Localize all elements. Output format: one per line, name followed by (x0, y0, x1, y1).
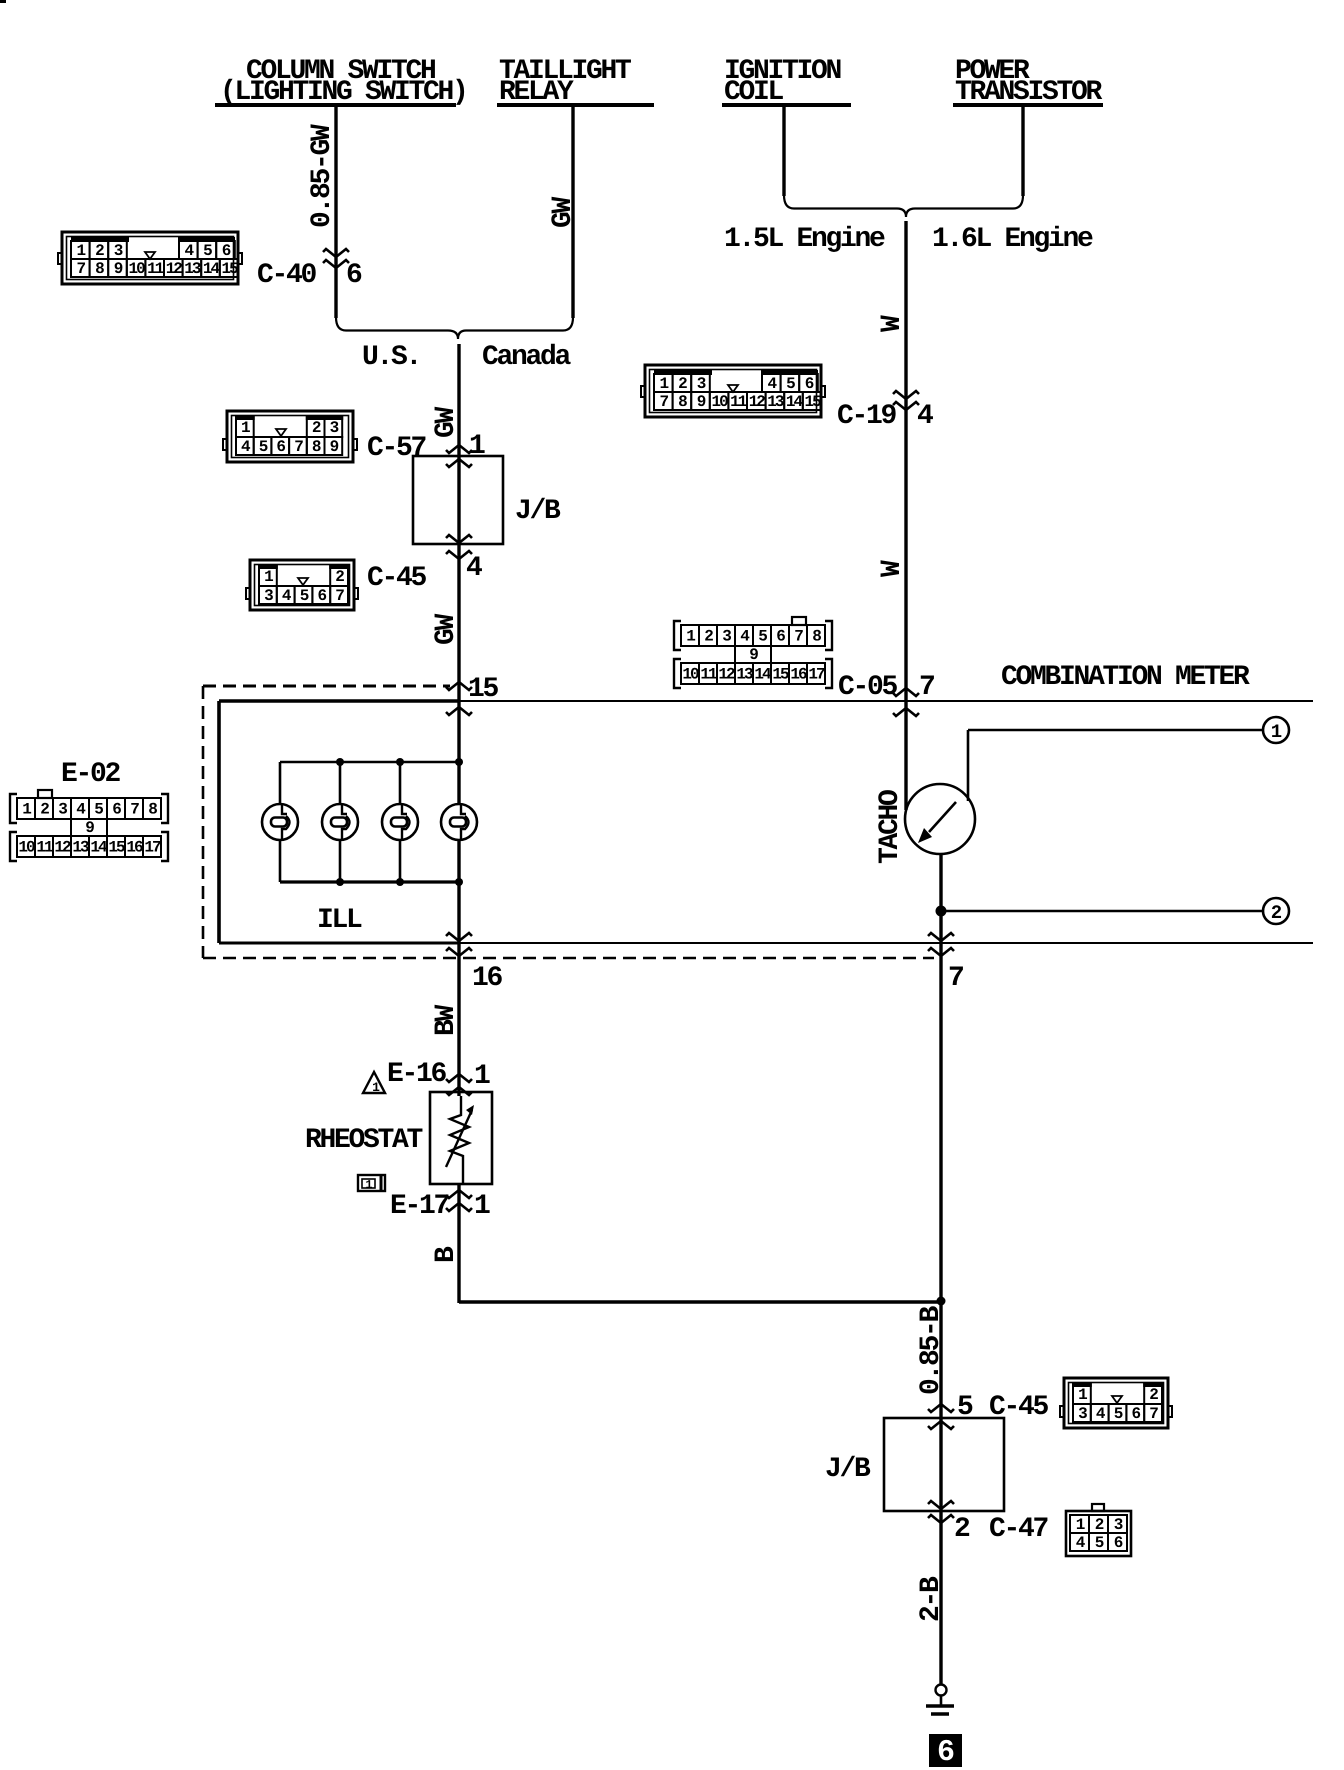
junction block J/B (upper) (413, 456, 503, 544)
svg-text:B: B (431, 1246, 462, 1263)
connector C-45 pin diagram (246, 560, 358, 610)
svg-text:13: 13 (72, 839, 89, 857)
combination meter inner solid box (217, 701, 221, 943)
svg-text:12: 12 (749, 393, 766, 411)
svg-text:10: 10 (682, 666, 699, 684)
svg-text:17: 17 (144, 839, 161, 857)
connector E-17 arrows pin 1 (446, 1190, 472, 1198)
svg-text:GW: GW (548, 196, 579, 228)
connector E-02 pin diagram (10, 790, 168, 861)
svg-text:14: 14 (786, 393, 804, 411)
svg-text:13: 13 (184, 260, 201, 278)
svg-text:14: 14 (90, 839, 108, 857)
junction with 0.85-B wire (937, 1297, 946, 1306)
svg-text:4: 4 (466, 553, 482, 584)
connector C-40 arrow pin 6 (323, 249, 349, 257)
svg-text:0.85-GW: 0.85-GW (307, 124, 338, 228)
connector C-40 pin diagram (58, 232, 242, 284)
svg-text:E-02: E-02 (61, 759, 121, 790)
wire lamp2 top stub (339, 762, 342, 804)
svg-text:1.6L Engine: 1.6L Engine (932, 224, 1093, 255)
rheostat (430, 1092, 492, 1184)
svg-text:15: 15 (804, 393, 821, 411)
svg-text:2-B: 2-B (916, 1576, 947, 1622)
svg-text:7: 7 (948, 963, 963, 994)
wire lamp1 bottom stub (279, 840, 282, 882)
svg-text:2: 2 (1271, 902, 1282, 924)
svg-text:1: 1 (474, 1061, 490, 1092)
connector C-47 arrows pin 2 (928, 1501, 954, 1509)
connector C-05 pin diagram (674, 617, 832, 688)
connector C-45 arrows pin 5 (928, 1404, 954, 1412)
lamp ILL bulb 1 (262, 804, 298, 840)
junction top bus / lamp2 (336, 758, 344, 766)
junction top bus / main wire (455, 758, 463, 766)
svg-text:6: 6 (937, 1736, 954, 1770)
combination meter dashed enclosure (203, 685, 450, 688)
wire lamp3 top stub (399, 762, 402, 804)
svg-text:E-16: E-16 (387, 1059, 447, 1090)
svg-text:W: W (877, 315, 908, 332)
connector E-16 arrows pin 1 (446, 1074, 472, 1082)
svg-text:C-40: C-40 (257, 260, 317, 291)
junction bottom bus / lamp3 (396, 878, 404, 886)
svg-text:6: 6 (346, 260, 362, 291)
svg-text:TACHO: TACHO (875, 790, 906, 864)
svg-text:C-05: C-05 (838, 672, 898, 703)
svg-text:10: 10 (711, 393, 728, 411)
warning triangle note 1 (363, 1072, 385, 1093)
wire 0.85-GW from column switch (334, 106, 337, 318)
connector C-45 lower pin diagram (1060, 1378, 1172, 1428)
svg-text:RHEOSTAT: RHEOSTAT (305, 1125, 423, 1156)
svg-text:10: 10 (18, 839, 35, 857)
connector C-47 pin diagram (1066, 1504, 1131, 1556)
junction bottom bus / main wire (455, 878, 463, 886)
brace joining U.S. / Canada wires (336, 317, 573, 339)
wire B horizontal run to right (459, 1300, 941, 1303)
connector C-45 arrow pin 4 (446, 535, 472, 543)
meter pin 16 exit arrows (446, 933, 472, 941)
svg-text:GW: GW (431, 406, 462, 438)
wire tacho terminal 1 vertical (967, 730, 970, 801)
svg-text:11: 11 (730, 393, 747, 411)
wire BW through meter bottom to rheostat (457, 840, 460, 1096)
svg-text:11: 11 (147, 260, 164, 278)
junction top bus / lamp3 (396, 758, 404, 766)
gauge TACHO (905, 784, 975, 854)
svg-text:ILL: ILL (317, 905, 362, 936)
svg-text:C-45: C-45 (367, 563, 427, 594)
connector C-19 pin diagram (641, 365, 825, 417)
svg-text:C-57: C-57 (367, 433, 426, 464)
junction bottom bus / lamp2 (336, 878, 344, 886)
node terminal circle 1 (1263, 717, 1289, 743)
wire lamp2 bottom stub (339, 840, 342, 882)
wire from power transistor (1021, 106, 1024, 196)
svg-text:12: 12 (718, 666, 735, 684)
wire W down to tachometer (904, 221, 907, 810)
lamp ILL bulb 2 (322, 804, 358, 840)
svg-text:W: W (877, 560, 908, 577)
wire GW from taillight relay (571, 106, 574, 318)
svg-text:14: 14 (203, 260, 221, 278)
svg-text:12: 12 (166, 260, 183, 278)
connector icon E-17 single pin (358, 1175, 385, 1191)
wire to external terminal 2 (941, 910, 1263, 913)
svg-text:15: 15 (221, 260, 238, 278)
page reference 6 (929, 1734, 962, 1767)
svg-text:C-19: C-19 (837, 401, 897, 432)
svg-text:1: 1 (474, 1191, 490, 1222)
svg-text:1: 1 (1271, 721, 1282, 743)
wire B from tacho down through meter bottom to ground (939, 854, 942, 1684)
svg-text:15: 15 (772, 666, 789, 684)
svg-text:16: 16 (472, 963, 503, 994)
svg-text:7: 7 (919, 672, 934, 703)
lamp ILL bulb 3 (382, 804, 418, 840)
svg-text:J/B: J/B (515, 496, 561, 527)
svg-text:11: 11 (700, 666, 717, 684)
svg-text:13: 13 (736, 666, 753, 684)
meter pin 7 exit arrows (bottom) (928, 933, 954, 941)
wire GW main run down to lamp group (457, 344, 460, 804)
node terminal circle 2 (1263, 898, 1289, 924)
svg-text:C-47: C-47 (989, 1514, 1048, 1545)
junction tacho/terminal 2 (936, 906, 947, 917)
svg-text:12: 12 (54, 839, 71, 857)
svg-text:16: 16 (790, 666, 807, 684)
svg-text:11: 11 (36, 839, 53, 857)
junction block J/B (lower) (884, 1418, 1004, 1511)
wire to external terminal 1 (968, 729, 1263, 732)
svg-text:BW: BW (431, 1004, 462, 1036)
wire lamp bottom bus (280, 880, 459, 883)
svg-text:10: 10 (128, 260, 145, 278)
svg-text:13: 13 (767, 393, 784, 411)
svg-text:14: 14 (754, 666, 772, 684)
svg-text:1: 1 (469, 431, 485, 462)
connector C-57 pin diagram (223, 411, 357, 462)
lamp ILL bulb 4 (441, 804, 477, 840)
svg-text:J/B: J/B (825, 1454, 871, 1485)
wire from ignition coil (782, 106, 785, 196)
svg-text:15: 15 (108, 839, 125, 857)
connector C-19 arrow pin 4 (893, 391, 919, 399)
svg-text:U.S.: U.S. (362, 342, 420, 373)
svg-text:2: 2 (954, 1514, 970, 1545)
ground symbol (936, 1685, 947, 1696)
connector C-57 arrow pin 1 (446, 445, 472, 453)
svg-text:17: 17 (808, 666, 825, 684)
brace joining 1.5L / 1.6L engine wires (784, 195, 1023, 217)
svg-text:E-17: E-17 (390, 1191, 449, 1222)
svg-text:4: 4 (917, 401, 933, 432)
svg-text:0.85-B: 0.85-B (916, 1305, 947, 1395)
combination meter pin 7 arrows (top) (893, 688, 919, 696)
svg-text:GW: GW (431, 613, 462, 645)
combination meter pin 15 arrows (446, 682, 472, 690)
page corner mark (0, 0, 6, 3)
svg-text:16: 16 (126, 839, 143, 857)
wire lamp1 top stub (279, 762, 282, 804)
svg-text:COMBINATION METER: COMBINATION METER (1001, 662, 1250, 693)
wire B below rheostat (457, 1184, 460, 1303)
svg-text:Canada: Canada (482, 342, 572, 373)
wire lamp top bus (280, 761, 459, 764)
wire lamp3 bottom stub (399, 840, 402, 882)
svg-text:1.5L Engine: 1.5L Engine (724, 224, 885, 255)
